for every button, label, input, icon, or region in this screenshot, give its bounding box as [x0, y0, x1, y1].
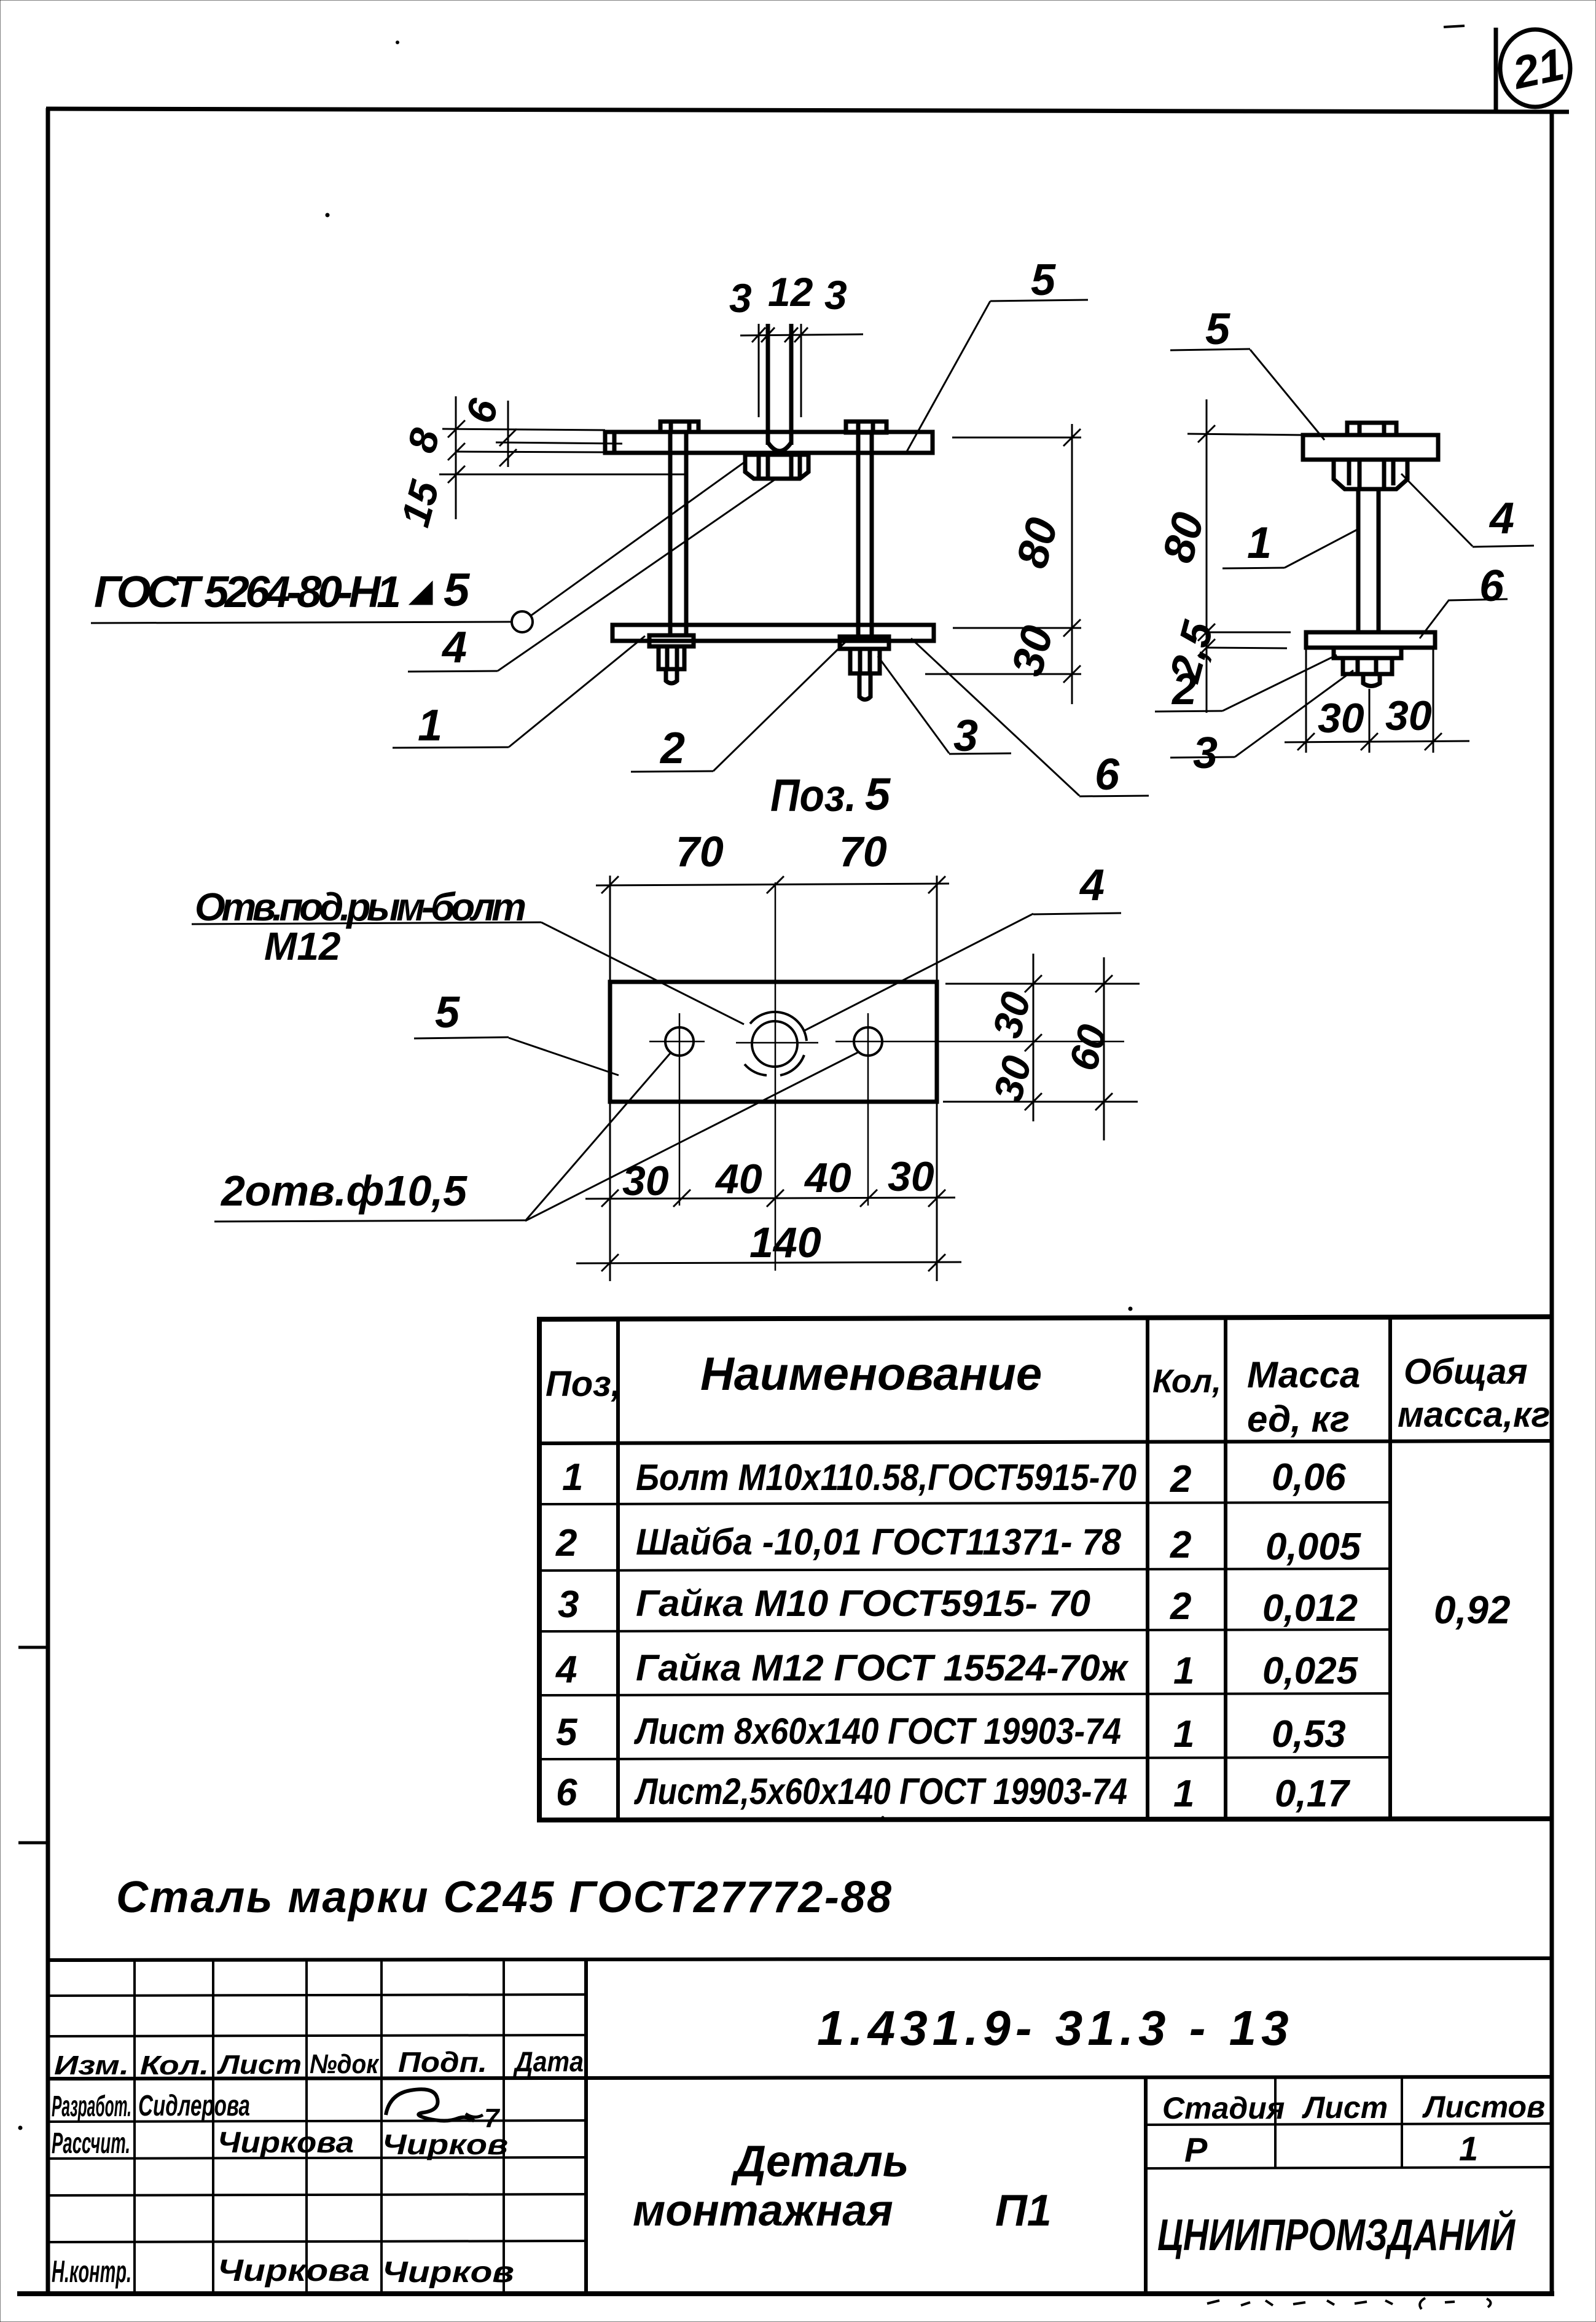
svg-text:0,92: 0,92 — [1434, 1588, 1511, 1632]
svg-text:30: 30 — [1385, 692, 1432, 739]
svg-text:0,17: 0,17 — [1275, 1773, 1350, 1815]
svg-text:Шайба -10,01 ГОСТ11371- 78: Шайба -10,01 ГОСТ11371- 78 — [636, 1521, 1122, 1563]
svg-text:6: 6 — [1095, 750, 1120, 799]
svg-text:Чирков: Чирков — [382, 2128, 508, 2160]
dim 30 30 side bottom — [1285, 741, 1469, 742]
svg-text:6: 6 — [1479, 562, 1504, 611]
svg-text:монтажная: монтажная — [633, 2186, 893, 2235]
nut3 right — [850, 649, 880, 673]
svg-text:Стадия: Стадия — [1162, 2091, 1285, 2125]
signature table rows — [48, 1994, 586, 1996]
svg-text:8: 8 — [398, 423, 448, 457]
svg-text:Подп.: Подп. — [398, 2046, 487, 2078]
svg-text:30: 30 — [984, 987, 1039, 1042]
nut3 side — [1343, 658, 1392, 674]
svg-text:Болт М10х110.58,ГОСТ5915-70: Болт М10х110.58,ГОСТ5915-70 — [636, 1457, 1136, 1498]
svg-text:80: 80 — [1007, 513, 1068, 573]
thread arc — [750, 1012, 807, 1041]
svg-text:2: 2 — [1170, 1585, 1191, 1628]
dim line 3-12-3 — [740, 334, 863, 335]
svg-text:0,06: 0,06 — [1272, 1456, 1346, 1499]
svg-text:Сидлерова: Сидлерова — [138, 2090, 250, 2122]
svg-text:3: 3 — [729, 275, 752, 321]
left dim lines 8,6,15 — [455, 396, 457, 519]
left hole d10.5 — [665, 1027, 694, 1056]
svg-text:Общая: Общая — [1404, 1352, 1528, 1392]
svg-text:60: 60 — [1060, 1019, 1116, 1075]
top dim 70+70 — [596, 884, 949, 885]
svg-text:70: 70 — [839, 828, 887, 876]
svg-text:Лист2,5х60х140 ГОСТ 19903-74: Лист2,5х60х140 ГОСТ 19903-74 — [634, 1771, 1127, 1812]
svg-text:5: 5 — [435, 988, 460, 1037]
svg-text:2: 2 — [1170, 1458, 1191, 1500]
svg-text:4: 4 — [1488, 494, 1514, 543]
svg-text:5: 5 — [1205, 305, 1230, 354]
svg-text:1: 1 — [562, 1456, 583, 1499]
svg-text:1: 1 — [1173, 1650, 1194, 1692]
svg-text:5: 5 — [444, 564, 471, 616]
svg-text:70: 70 — [676, 828, 724, 876]
svg-text:Кол,: Кол, — [1152, 1363, 1221, 1400]
weld circle — [512, 611, 533, 632]
nut4 M12 side under plate — [1334, 460, 1407, 489]
svg-text:30: 30 — [622, 1158, 669, 1204]
center hole M12 — [752, 1021, 797, 1067]
svg-text:5: 5 — [1031, 256, 1056, 305]
bolt1 right shaft — [856, 433, 861, 637]
svg-text:5: 5 — [556, 1711, 578, 1754]
svg-text:Сталь марки С245 ГОСТ27772-: Сталь марки С245 ГОСТ27772-88 — [116, 1873, 891, 1922]
svg-text:ГОСТ 5264-80-Н1: ГОСТ 5264-80-Н1 — [94, 568, 401, 617]
bottom plate item6 front — [612, 625, 934, 641]
svg-text:Лист: Лист — [217, 2050, 302, 2080]
svg-text:Поз.: Поз. — [770, 770, 856, 821]
svg-text:Рассчит.: Рассчит. — [52, 2127, 130, 2160]
svg-text:4: 4 — [441, 623, 467, 672]
svg-text:№док: №док — [310, 2049, 380, 2079]
svg-text:Деталь: Деталь — [730, 2137, 909, 2186]
svg-text:Наименование: Наименование — [700, 1348, 1042, 1400]
washer2 side — [1334, 648, 1401, 658]
signature table columns — [133, 1959, 136, 2294]
M12 hole bottom arc — [768, 442, 791, 451]
bolt head above plate — [1347, 423, 1396, 435]
right dims 30 30 / 60 — [945, 983, 1140, 985]
svg-text:0,005: 0,005 — [1265, 1526, 1362, 1568]
svg-text:30: 30 — [888, 1153, 934, 1200]
svg-text:0,025: 0,025 — [1262, 1650, 1359, 1692]
svg-text:30: 30 — [985, 1051, 1041, 1106]
svg-text:Разработ.: Разработ. — [52, 2090, 131, 2123]
svg-text:Кол.: Кол. — [140, 2050, 209, 2081]
bolt1 shaft side — [1356, 489, 1361, 632]
svg-text:1: 1 — [418, 701, 442, 750]
weld leader diagonal — [531, 462, 745, 616]
svg-text:2: 2 — [1170, 1524, 1191, 1566]
svg-text:6: 6 — [457, 393, 507, 428]
washer2 left — [649, 635, 694, 646]
plate item5 plan outline — [610, 982, 937, 1102]
sheet number box divider — [1494, 28, 1498, 114]
dim 3-12-3 extension lines — [758, 324, 760, 417]
svg-text:Н.контр.: Н.контр. — [52, 2254, 131, 2289]
svg-text:Чирков: Чирков — [382, 2256, 514, 2289]
svg-text:Дата: Дата — [512, 2045, 584, 2077]
washer2 right — [840, 637, 889, 649]
svg-text:1.431.9- 31.3 - 13: 1.431.9- 31.3 - 13 — [817, 2001, 1294, 2055]
svg-text:3: 3 — [824, 272, 847, 318]
stadia table — [1274, 2077, 1277, 2168]
svg-text:2: 2 — [1171, 665, 1197, 714]
bolt1 left shaft — [668, 433, 673, 635]
svg-text:П1: П1 — [995, 2186, 1052, 2235]
svg-text:40: 40 — [714, 1156, 762, 1202]
M12 hole walls — [766, 324, 770, 445]
svg-text:30: 30 — [1318, 695, 1364, 742]
svg-text:Гайка М10 ГОСТ5915- 70: Гайка М10 ГОСТ5915- 70 — [636, 1583, 1090, 1624]
svg-text:140: 140 — [749, 1218, 821, 1266]
svg-text:ед, кг: ед, кг — [1247, 1398, 1350, 1440]
svg-text:М12: М12 — [264, 924, 341, 968]
signature squiggle 1 — [386, 2089, 474, 2121]
nut3 left — [659, 646, 684, 669]
svg-text:ЦНИИПРОМЗДАНИЙ: ЦНИИПРОМЗДАНИЙ — [1157, 2209, 1516, 2260]
svg-text:4: 4 — [555, 1649, 577, 1691]
top plate item5 side — [1303, 435, 1438, 460]
svg-text:0,012: 0,012 — [1262, 1587, 1358, 1630]
svg-text:5: 5 — [865, 769, 891, 820]
svg-text:15: 15 — [392, 475, 448, 531]
svg-text:Масса: Масса — [1247, 1354, 1360, 1395]
svg-text:Лист: Лист — [1302, 2090, 1388, 2125]
sheet number circle 21 — [1500, 29, 1570, 107]
svg-text:масса,кг: масса,кг — [1398, 1395, 1550, 1435]
svg-text:2: 2 — [659, 724, 685, 773]
svg-text:Изм.: Изм. — [54, 2050, 129, 2081]
svg-text:40: 40 — [804, 1155, 851, 1201]
svg-text:3: 3 — [1193, 729, 1218, 778]
bolt1 left head — [660, 422, 698, 432]
svg-text:4: 4 — [1079, 861, 1105, 910]
weld leader underline — [91, 622, 511, 623]
cut-off stamp fragments below frame — [1207, 2298, 1491, 2309]
svg-text:0,53: 0,53 — [1272, 1713, 1346, 1755]
svg-text:1: 1 — [1459, 2129, 1478, 2168]
svg-text:2отв.ф10,5: 2отв.ф10,5 — [220, 1167, 467, 1215]
svg-text:Чиркова: Чиркова — [217, 2253, 370, 2288]
svg-text:1: 1 — [1247, 519, 1272, 568]
svg-text:Лист 8х60х140 ГОСТ 19903-74: Лист 8х60х140 ГОСТ 19903-74 — [633, 1711, 1121, 1752]
bottom dim 140 — [576, 1262, 961, 1263]
svg-text:Гайка М12 ГОСТ 15524-70ж: Гайка М12 ГОСТ 15524-70ж — [636, 1647, 1129, 1689]
scan specks — [326, 213, 329, 217]
centerlines — [649, 1041, 705, 1043]
svg-text:2: 2 — [555, 1522, 577, 1564]
svg-text:80: 80 — [1153, 508, 1213, 568]
svg-text:3: 3 — [558, 1583, 579, 1626]
bolt1 left end — [666, 669, 677, 683]
bottom plate item6 side — [1306, 632, 1435, 648]
right dim line 80/30 — [1071, 424, 1073, 704]
right hole d10.5 — [854, 1027, 882, 1056]
svg-text:Чиркова: Чиркова — [217, 2127, 354, 2159]
svg-text:12: 12 — [768, 269, 813, 315]
svg-text:1: 1 — [1173, 1713, 1194, 1755]
svg-text:6: 6 — [556, 1771, 577, 1814]
svg-text:30: 30 — [1003, 621, 1063, 681]
svg-text:Поз,: Поз, — [546, 1364, 621, 1404]
svg-text:Листов: Листов — [1422, 2090, 1545, 2124]
top plate item5 front — [605, 432, 933, 453]
bolt1 right head — [846, 422, 886, 433]
bolt1 right end — [859, 673, 870, 700]
bottom dim 30 40 40 30 — [585, 1198, 955, 1199]
dim line 80/2.5 side — [1206, 399, 1208, 713]
stray mark top right — [1444, 26, 1465, 27]
bolt end side — [1363, 674, 1380, 686]
svg-text:21: 21 — [1508, 38, 1569, 99]
nut4 M12 under plate — [745, 455, 808, 479]
svg-text:Р: Р — [1184, 2130, 1208, 2169]
svg-text:1: 1 — [1173, 1773, 1194, 1815]
